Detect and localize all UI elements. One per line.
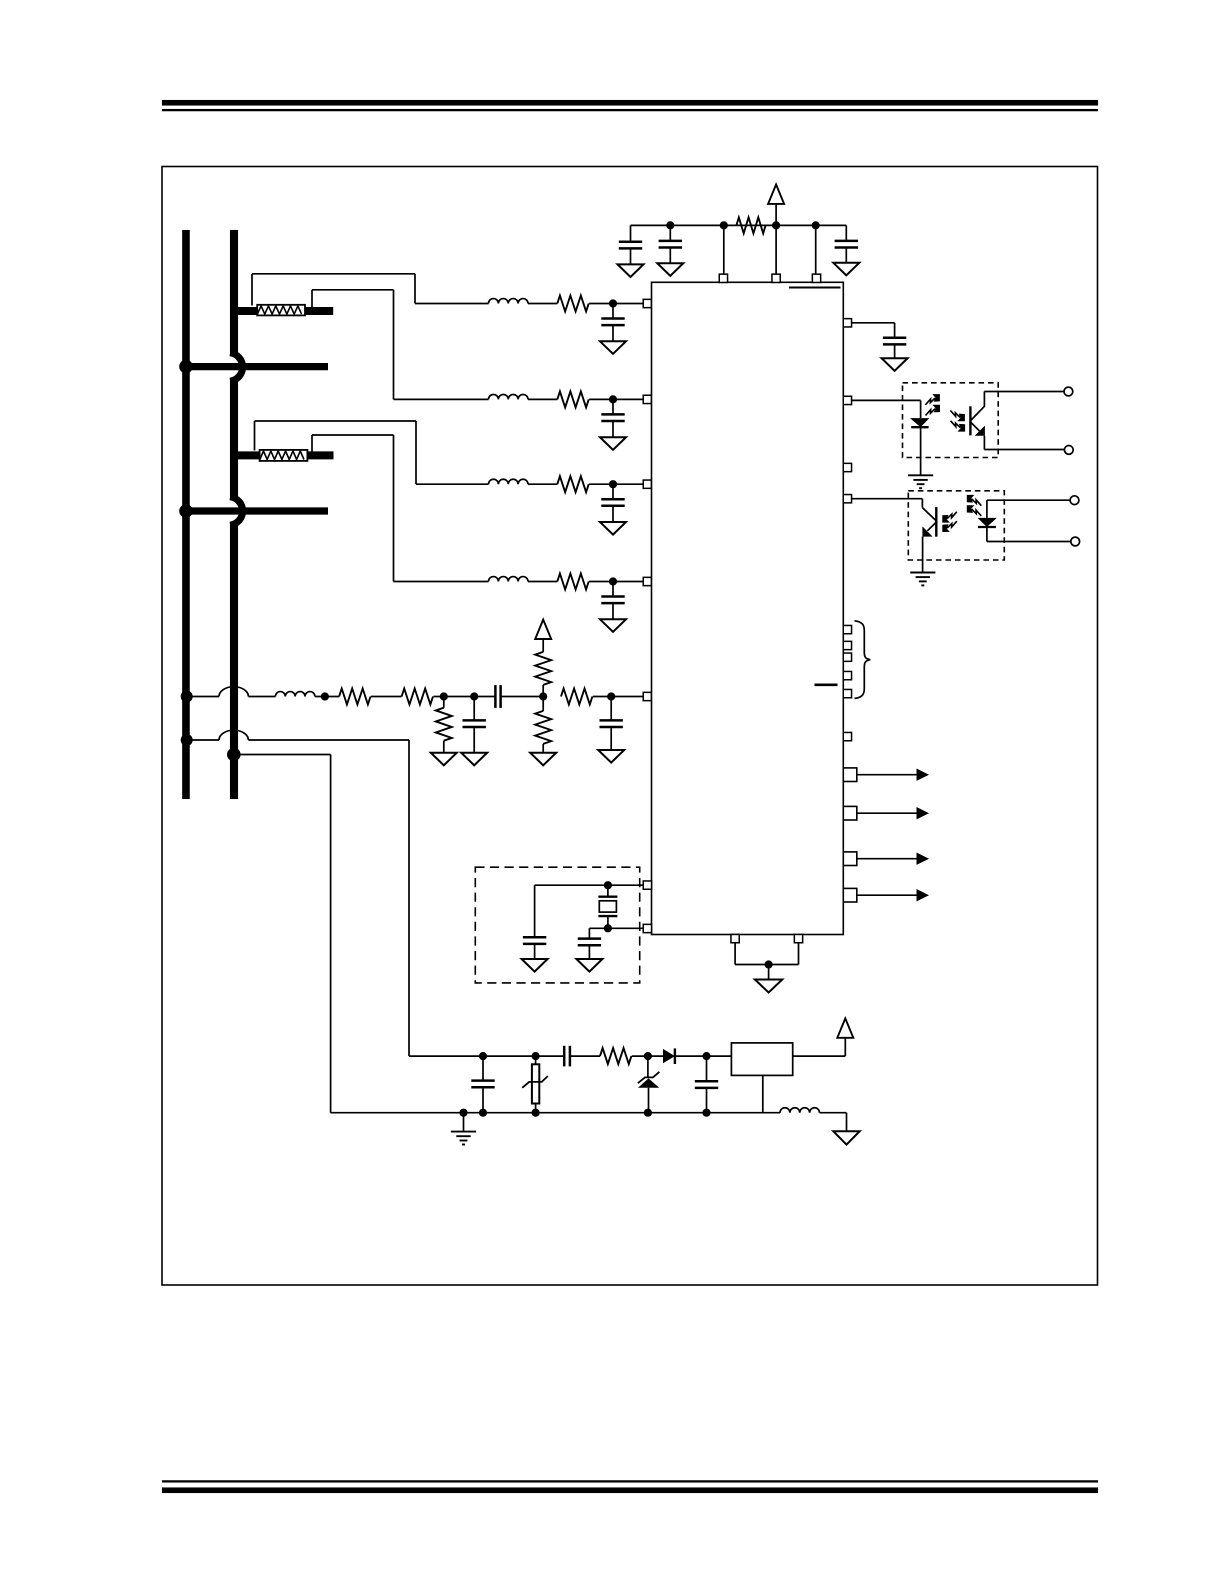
- wire PSU line: [187, 739, 219, 741]
- node channel I1N: [609, 395, 617, 403]
- hop arc over bus L2 (PSU line): [219, 730, 248, 740]
- signal arrow OUT1: [857, 774, 918, 776]
- wire AVDD arrow lead: [775, 204, 777, 226]
- capacitor C6 series: [494, 685, 497, 708]
- pin D0 (right): [843, 625, 851, 633]
- phototransistor U2 collector: [971, 406, 985, 420]
- capacitor C2 channel I1N: [612, 399, 614, 414]
- U2 photo arrows: [950, 411, 960, 418]
- inductor L1 channel I1P: [489, 299, 529, 304]
- wire U3 LED cathode to terminal: [986, 527, 988, 542]
- ground C13: [576, 959, 602, 972]
- ground C12: [522, 959, 548, 972]
- pin D1 (right): [843, 641, 851, 649]
- wire RX pin to U3: [852, 498, 923, 500]
- resistor R8 pull-up: [542, 685, 544, 697]
- capacitor C8 bypass: [630, 225, 632, 241]
- pin I2N: [643, 577, 651, 585]
- node ground pins: [765, 960, 773, 968]
- wire node to ground: [768, 965, 770, 980]
- ground channel I2P: [600, 522, 626, 535]
- pin OSCO (left): [643, 924, 651, 932]
- phototransistor U3 collector: [922, 508, 936, 521]
- supply arrow AVDD (divider bias): [535, 620, 551, 639]
- wire PSU neutral drop: [238, 754, 331, 756]
- wire channel I2P to filter: [416, 483, 489, 485]
- U3 photo arrows: [947, 512, 957, 519]
- supply arrow AVDD: [768, 185, 784, 204]
- wire U2 collector to terminal: [984, 391, 1064, 393]
- inductor L6 ground lift: [780, 1108, 820, 1113]
- figure frame: [162, 167, 1098, 1286]
- wire L4 to R4: [528, 581, 557, 583]
- pin D2 (right): [843, 653, 851, 661]
- ground C5: [461, 753, 487, 766]
- earth ground U3: [910, 572, 935, 574]
- PSU top rail: [409, 1055, 564, 1057]
- optocoupler U2 body: [903, 383, 999, 458]
- resistor R1 channel I1P: [557, 296, 588, 312]
- node C14: [479, 1052, 487, 1060]
- terminal TX-: [1064, 446, 1073, 455]
- pin I1P: [643, 299, 651, 307]
- wire R2 to pin I1N: [589, 398, 643, 400]
- junction bus L1 / PSU line: [181, 734, 193, 746]
- wire shunt RS1 - sense: [311, 290, 313, 308]
- ground C8: [618, 264, 644, 277]
- capacitor C10 bypass: [845, 225, 847, 241]
- page top thick rule: [162, 100, 1098, 106]
- wire hop to L5: [248, 696, 275, 698]
- inductor L4 channel I2N: [489, 577, 529, 582]
- node V1a: [440, 692, 448, 700]
- IC internal overbar (top right): [789, 287, 841, 289]
- ground C9: [657, 263, 683, 276]
- wire R4 to pin I2N: [589, 581, 643, 583]
- pin CAPREF (right): [843, 319, 851, 327]
- node channel I1P: [609, 299, 617, 307]
- signal arrow OUT3: [857, 858, 918, 860]
- node Z1 bottom: [644, 1109, 652, 1117]
- shunt resistor RS1 right stub: [305, 307, 334, 315]
- resistor R2 channel I1N: [557, 391, 588, 407]
- junction bus L1 / voltage sense: [181, 691, 193, 703]
- node channel I2N: [609, 577, 617, 585]
- ground R7: [431, 753, 457, 766]
- wire earth lead: [463, 1113, 465, 1132]
- resistor R4 channel I2N: [557, 574, 588, 590]
- IC U1 (metering AFE): [652, 282, 844, 934]
- inductor L5 voltage channel: [275, 692, 315, 697]
- varistor RV1: [535, 1056, 537, 1064]
- PSU bottom rail: [331, 1112, 780, 1114]
- bus L2 (line 2 vertical bar): [230, 230, 238, 353]
- ground channel I1P: [600, 341, 626, 354]
- capacitor C14 input: [482, 1056, 484, 1081]
- wire U4 ground lead: [762, 1075, 764, 1112]
- LED U3: [978, 518, 997, 527]
- pin DGND (bottom): [794, 934, 802, 942]
- resistor R6 divider: [402, 689, 433, 705]
- wire R1 to pin I1P: [589, 303, 643, 305]
- wire to PSU ground: [846, 1113, 848, 1132]
- wire R10 to pin V1: [593, 696, 644, 698]
- earth ground U2: [908, 474, 933, 476]
- resistor R3 channel I2P: [557, 476, 588, 492]
- pin NC2 (right): [843, 732, 851, 740]
- wire voltage sense: [187, 696, 219, 698]
- wire AGND/DGND to ground: [734, 943, 736, 965]
- shunt resistor RS2 left stub: [236, 451, 261, 459]
- wire rail to DVDD pin: [723, 225, 725, 274]
- optocoupler U3 body: [908, 491, 1004, 560]
- signal arrow OUT4: [857, 894, 918, 896]
- terminal RX-: [1071, 537, 1080, 546]
- capacitor C4 channel I2N: [612, 582, 614, 597]
- wire U2 emitter to terminal: [984, 449, 1064, 451]
- supply arrow VDD: [837, 1018, 853, 1037]
- ground R9: [530, 753, 556, 766]
- shunt resistor RS2 right stub: [307, 451, 334, 459]
- ground PSU: [833, 1131, 859, 1144]
- phototransistor U3 emitter: [927, 523, 936, 531]
- resistor R12 series: [600, 1048, 631, 1064]
- wire node V1b to C6: [474, 696, 495, 698]
- page bottom thick rule: [162, 1488, 1098, 1494]
- page top thin rule: [162, 109, 1098, 111]
- ground C11: [882, 358, 908, 371]
- wire L5 to R5: [315, 696, 339, 698]
- pin TX (right): [843, 396, 851, 404]
- inductor L2 channel I1N: [489, 394, 529, 399]
- node rail/DVDD pin: [720, 221, 728, 229]
- node channel I2P: [609, 480, 617, 488]
- capacitor C3 channel I2P: [612, 484, 614, 499]
- wire PSU line to drop: [248, 739, 409, 741]
- shunt resistor RS1 left stub: [236, 307, 259, 315]
- ground channel I1N: [600, 437, 626, 450]
- pin OSCI (left): [643, 881, 651, 889]
- capacitor C1 channel I1P: [612, 304, 614, 319]
- wire shunt RS1 + sense: [251, 274, 253, 306]
- node RV1 top: [532, 1052, 540, 1060]
- shunt resistor RS1: [257, 305, 305, 316]
- ground C10: [833, 263, 859, 276]
- crystal section box: [475, 867, 639, 983]
- capacitor C16: [706, 1056, 708, 1081]
- thick tap line phase A: [182, 363, 328, 370]
- junction bus L1 / tap A: [179, 360, 193, 374]
- pin D4 (right): [843, 689, 851, 697]
- wire L3 to R3: [528, 483, 557, 485]
- ground channel I2N: [600, 619, 626, 632]
- pin NC (right): [843, 463, 851, 471]
- wire R3 to pin I2P: [589, 483, 643, 485]
- hop arc over bus L2 (voltage sense): [219, 687, 248, 697]
- capacitor C9 bypass: [669, 225, 671, 241]
- wire TX pin to U2 LED: [852, 399, 921, 401]
- pin OUT3 (right, large): [843, 852, 857, 866]
- junction bus L1 / tap B: [179, 504, 193, 518]
- pin AGND (bottom): [731, 934, 739, 942]
- wire channel I1N to filter: [394, 398, 489, 400]
- pin D3 (right): [843, 671, 851, 679]
- node D1/Z1: [644, 1052, 652, 1060]
- capacitor C15 series (X cap): [563, 1046, 566, 1067]
- wire channel I1P to filter: [415, 303, 489, 305]
- wire U2 LED cathode to earth: [920, 427, 922, 475]
- wire C6 to node V2: [501, 696, 544, 698]
- node rail/VREF pin: [812, 221, 820, 229]
- node OSCO/XTAL: [604, 924, 612, 932]
- capacitor C11: [883, 337, 906, 340]
- wire L1 to R1: [528, 303, 557, 305]
- node rail/C9: [666, 221, 674, 229]
- shunt resistor RS2: [260, 450, 308, 461]
- earth ground PSU: [451, 1131, 476, 1133]
- wire U3 LED anode to terminal: [986, 500, 988, 518]
- wire rail to VREF pin: [815, 225, 817, 274]
- wire L2 to R2: [528, 398, 557, 400]
- node C16 bottom: [702, 1109, 710, 1117]
- capacitor C7 to ground: [610, 697, 612, 721]
- capacitor C13 crystal: [588, 928, 590, 938]
- pin V1P: [643, 692, 651, 700]
- pin DVDD (top): [719, 274, 727, 282]
- wire rail to AVDD pin: [775, 225, 777, 274]
- capacitor C5 to ground: [473, 697, 475, 721]
- terminal TX+: [1064, 387, 1073, 396]
- phototransistor U3 base bar: [935, 507, 937, 537]
- CT coupling arc phase B: [230, 497, 243, 525]
- node after L5: [321, 692, 329, 700]
- wire shunt RS2 - sense: [311, 435, 313, 452]
- wire channel I2N to filter: [394, 581, 489, 583]
- terminal RX+: [1070, 496, 1079, 505]
- pin AVDD (top): [772, 274, 780, 282]
- node earth tap: [459, 1109, 467, 1117]
- pin VREF (top): [812, 274, 820, 282]
- LED U2 emission arrows: [925, 398, 935, 405]
- pin I1N: [643, 395, 651, 403]
- pin I2P: [643, 480, 651, 488]
- node V2: [539, 692, 547, 700]
- phototransistor U2 base bar: [969, 406, 971, 435]
- wire U4 output: [793, 1055, 846, 1057]
- wire R6 to node V1: [433, 696, 474, 698]
- resistor R11 rail: [736, 217, 765, 233]
- bus L1 (line 1 vertical bar): [182, 230, 190, 799]
- ground IC: [755, 980, 782, 993]
- pin RX (right): [843, 495, 851, 503]
- node C14 bottom: [479, 1109, 487, 1117]
- crystal Y1: [607, 885, 609, 897]
- node V1b: [470, 692, 478, 700]
- signal arrow OUT2: [857, 812, 918, 814]
- brace (data bus pins): [855, 621, 871, 699]
- pin OUT4 (right, large): [843, 888, 857, 902]
- capacitor C12 crystal: [534, 885, 536, 937]
- resistor R10 to pin: [561, 689, 592, 705]
- wire CAPREF pin to C11: [852, 322, 895, 324]
- bypass rail: [631, 224, 847, 226]
- regulator U4: [731, 1043, 792, 1076]
- ground C7: [598, 750, 624, 763]
- LED U3 emission arrows: [972, 499, 982, 506]
- LED U2: [910, 418, 929, 427]
- node OSCI/XTAL: [604, 881, 612, 889]
- wire OSCO: [589, 927, 643, 929]
- junction bus L2 / PSU neutral: [227, 748, 241, 762]
- zener Z1: [647, 1056, 649, 1077]
- resistor R9 pull-down: [542, 697, 544, 711]
- wire OSCI: [535, 884, 644, 886]
- IC internal overbar (right, mid): [815, 683, 838, 686]
- thick tap line phase B: [182, 507, 328, 514]
- pin OUT1 (right, large): [843, 768, 857, 782]
- page bottom thin rule: [162, 1480, 1098, 1482]
- CT coupling arc phase A: [230, 353, 243, 381]
- pin OUT2 (right, large): [843, 806, 857, 820]
- wire shunt RS2 + sense: [254, 421, 256, 451]
- inductor L3 channel I2P: [489, 479, 529, 484]
- node V3: [607, 692, 615, 700]
- resistor R7 to ground: [443, 697, 445, 708]
- phototransistor U2 emitter: [971, 422, 980, 431]
- node RV1 bottom: [532, 1109, 540, 1117]
- node rail/AVDD: [772, 221, 780, 229]
- diode D1: [663, 1049, 675, 1063]
- wire R5 to R6: [371, 696, 402, 698]
- node C16 top: [702, 1052, 710, 1060]
- resistor R5 divider: [339, 689, 370, 705]
